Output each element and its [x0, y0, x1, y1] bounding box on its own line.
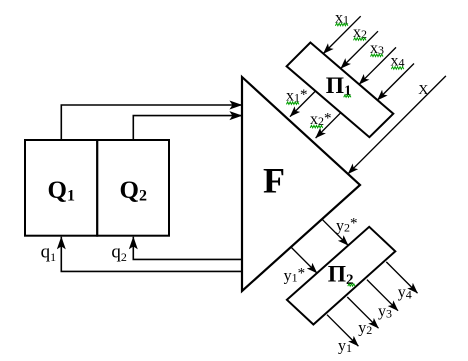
register box Q2	[97, 140, 169, 236]
label P1	[326, 73, 352, 99]
squiggle under P2 subscript	[348, 284, 355, 286]
label x1	[335, 9, 349, 26]
svg-text:y2: y2	[358, 319, 372, 337]
label Q1	[48, 177, 75, 204]
svg-text:y2*: y2*	[336, 216, 358, 235]
squiggle under x1	[335, 23, 348, 26]
label y1*	[284, 265, 306, 284]
arrow x1 into P1	[323, 16, 360, 53]
squiggle under P1 subscript	[344, 95, 351, 97]
label x3	[370, 40, 384, 57]
squiggle under x4	[391, 67, 404, 70]
svg-text:x1*: x1*	[286, 87, 308, 105]
svg-text:Q1: Q1	[48, 177, 75, 204]
svg-text:Q2: Q2	[120, 177, 147, 204]
arrow y1 out of P2	[327, 315, 358, 346]
squiggle under x1*	[286, 102, 299, 105]
label x1*	[286, 87, 308, 105]
label Q2	[120, 177, 147, 204]
arrow y1* from F to P2	[291, 247, 317, 273]
label y2*	[336, 216, 358, 235]
arrow x1* from P1 to F	[290, 91, 316, 117]
permutation box P2	[287, 227, 395, 325]
arrow y2 out of P2	[347, 297, 378, 328]
label q2	[111, 242, 127, 264]
label x2	[353, 24, 367, 41]
arrow x3 into P1	[359, 47, 396, 84]
svg-text:X: X	[418, 83, 428, 98]
label y2	[358, 319, 372, 337]
label F	[263, 161, 285, 201]
label y4	[398, 284, 412, 302]
svg-text:x2*: x2*	[310, 111, 332, 128]
label x2*	[310, 111, 332, 128]
svg-text:F: F	[263, 161, 285, 201]
label P2	[328, 261, 354, 288]
permutation box P1	[287, 43, 394, 138]
label x4	[391, 52, 405, 69]
wire Q2 top to F input 2	[133, 116, 242, 140]
arrow x2* from P1 to F	[316, 113, 341, 138]
arrow y3 out of P2	[367, 280, 398, 311]
arrow x2 into P1	[341, 31, 378, 68]
label y3	[378, 303, 392, 321]
wire F feedback q2	[133, 237, 242, 260]
arrow y4 out of P2	[386, 262, 417, 293]
arrow x4 into P1	[377, 64, 414, 101]
squiggle under x2	[354, 38, 367, 41]
register box Q1	[25, 140, 97, 236]
label X	[418, 83, 428, 98]
squiggle under x2*	[310, 125, 323, 128]
svg-text:y1: y1	[338, 337, 352, 355]
arrow X into F	[348, 76, 446, 174]
triangle F	[242, 77, 360, 291]
svg-text:y3: y3	[378, 303, 392, 321]
wire Q1 top to F input 1	[61, 105, 242, 140]
svg-text:y4: y4	[398, 284, 412, 302]
svg-text:q2: q2	[111, 242, 127, 264]
label q1	[41, 242, 57, 264]
wire F feedback q1	[61, 237, 242, 272]
label y1	[338, 337, 352, 355]
squiggle under x3	[371, 54, 384, 57]
svg-text:y1*: y1*	[284, 265, 306, 284]
svg-text:q1: q1	[41, 242, 57, 264]
arrow y2* from F to P2	[322, 219, 348, 245]
